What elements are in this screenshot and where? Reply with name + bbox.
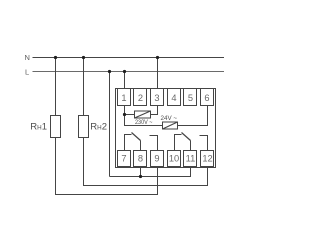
svg-text:6: 6: [204, 93, 209, 103]
svg-text:11: 11: [186, 154, 196, 164]
svg-text:3: 3: [154, 93, 159, 103]
svg-text:7: 7: [121, 154, 126, 164]
svg-text:N: N: [25, 53, 30, 62]
svg-text:1: 1: [121, 93, 126, 103]
svg-text:5: 5: [188, 93, 193, 103]
svg-text:24V ~: 24V ~: [161, 115, 178, 122]
svg-text:8: 8: [138, 154, 143, 164]
svg-text:12: 12: [202, 154, 212, 164]
svg-text:L: L: [25, 68, 29, 77]
svg-text:RH1: RH1: [30, 122, 47, 133]
svg-text:4: 4: [171, 93, 176, 103]
svg-text:RH2: RH2: [90, 122, 107, 133]
svg-text:2: 2: [138, 93, 143, 103]
svg-text:230V ~: 230V ~: [135, 119, 153, 126]
svg-text:9: 9: [154, 154, 159, 164]
svg-text:10: 10: [169, 154, 179, 164]
